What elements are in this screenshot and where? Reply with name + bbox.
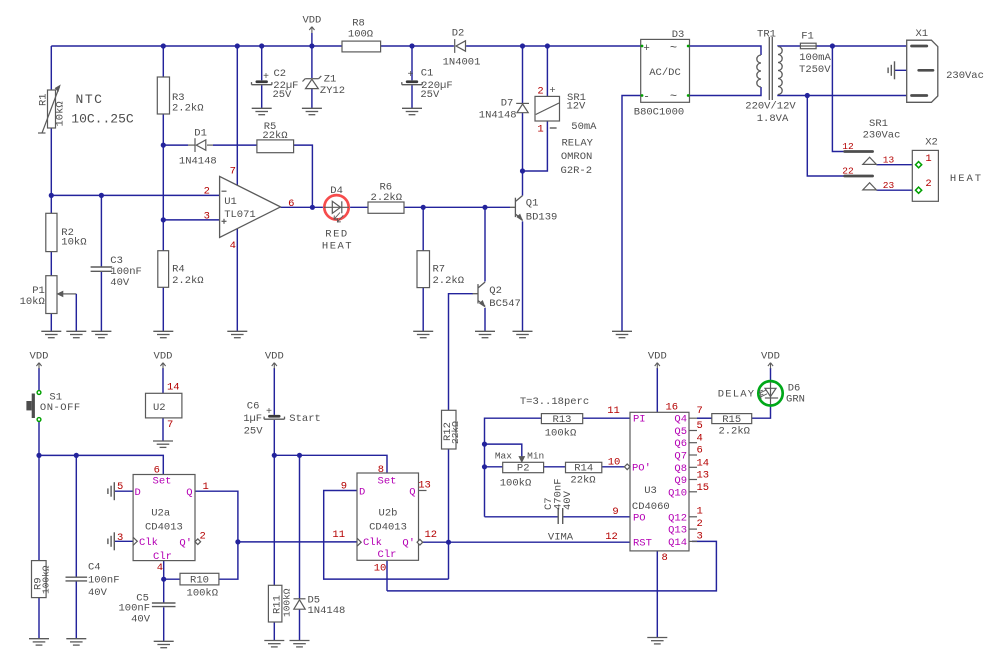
- svg-text:GRN: GRN: [786, 394, 805, 406]
- svg-text:G2R-2: G2R-2: [561, 165, 593, 177]
- svg-text:12: 12: [842, 141, 854, 152]
- svg-text:RED: RED: [325, 229, 348, 241]
- svg-text:2.2kΩ: 2.2kΩ: [433, 275, 465, 287]
- svg-text:CD4060: CD4060: [632, 501, 670, 513]
- svg-text:10kΩ: 10kΩ: [61, 237, 86, 249]
- svg-text:Clk: Clk: [363, 537, 382, 549]
- svg-text:Start: Start: [289, 413, 321, 425]
- svg-text:2.2kΩ: 2.2kΩ: [718, 425, 750, 437]
- svg-text:P2: P2: [517, 463, 530, 475]
- svg-text:12V: 12V: [566, 100, 586, 112]
- svg-text:100kΩ: 100kΩ: [500, 477, 532, 489]
- svg-text:R7: R7: [433, 264, 446, 276]
- svg-text:R14: R14: [574, 463, 593, 475]
- svg-text:2.2kΩ: 2.2kΩ: [172, 103, 204, 115]
- svg-text:100mA: 100mA: [799, 52, 831, 64]
- svg-text:Q4: Q4: [674, 414, 687, 426]
- svg-text:Set: Set: [153, 475, 172, 487]
- svg-text:100kΩ: 100kΩ: [545, 427, 577, 439]
- svg-text:AC/DC: AC/DC: [649, 67, 681, 79]
- svg-text:R1: R1: [38, 93, 50, 106]
- svg-text:40V: 40V: [110, 277, 130, 289]
- svg-text:2: 2: [537, 86, 543, 98]
- svg-text:Clr: Clr: [153, 551, 172, 563]
- svg-text:16: 16: [666, 402, 679, 414]
- svg-text:3: 3: [117, 532, 123, 544]
- svg-text:5: 5: [697, 420, 703, 432]
- svg-text:25V: 25V: [420, 89, 440, 101]
- svg-text:100Ω: 100Ω: [348, 29, 373, 41]
- svg-text:25V: 25V: [272, 89, 292, 101]
- svg-text:OMRON: OMRON: [561, 151, 593, 163]
- svg-text:RST: RST: [633, 537, 652, 549]
- svg-text:NTC: NTC: [76, 92, 104, 107]
- svg-text:+: +: [643, 43, 650, 55]
- svg-text:Q: Q: [409, 487, 415, 499]
- svg-text:+: +: [266, 407, 272, 418]
- svg-text:13: 13: [883, 155, 895, 166]
- svg-text:ZY12: ZY12: [320, 85, 345, 97]
- svg-text:D1: D1: [194, 127, 207, 139]
- svg-text:9: 9: [612, 506, 618, 518]
- svg-text:VDD: VDD: [154, 351, 173, 363]
- svg-text:R10: R10: [190, 574, 209, 586]
- svg-text:X1: X1: [915, 28, 928, 40]
- svg-text:+: +: [407, 70, 413, 81]
- svg-text:9: 9: [341, 481, 347, 493]
- svg-text:Q5: Q5: [674, 426, 687, 438]
- svg-text:TL071: TL071: [224, 209, 256, 221]
- svg-text:RELAY: RELAY: [561, 137, 593, 149]
- svg-text:100kΩ: 100kΩ: [187, 588, 219, 600]
- svg-text:1: 1: [537, 124, 543, 136]
- svg-text:11: 11: [332, 529, 345, 541]
- svg-text:7: 7: [697, 405, 703, 417]
- svg-text:25V: 25V: [244, 426, 264, 438]
- svg-text:Q': Q': [179, 538, 192, 550]
- svg-text:1µF: 1µF: [243, 413, 262, 425]
- svg-text:Q1: Q1: [526, 198, 539, 210]
- svg-text:HEAT: HEAT: [322, 240, 353, 252]
- svg-text:14: 14: [697, 458, 710, 470]
- svg-text:Q7: Q7: [674, 451, 687, 463]
- svg-text:SR1: SR1: [869, 118, 888, 130]
- svg-text:T250V: T250V: [799, 64, 831, 76]
- svg-text:VDD: VDD: [30, 351, 49, 363]
- svg-text:VDD: VDD: [648, 351, 667, 363]
- svg-text:Q13: Q13: [668, 525, 687, 537]
- svg-text:10kΩ: 10kΩ: [20, 296, 45, 308]
- svg-text:ON-OFF: ON-OFF: [40, 402, 81, 414]
- svg-text:220V/12V: 220V/12V: [745, 101, 796, 113]
- svg-text:3: 3: [697, 531, 703, 543]
- svg-text:VDD: VDD: [302, 15, 321, 27]
- svg-text:DELAY: DELAY: [718, 389, 756, 401]
- svg-text:22kΩ: 22kΩ: [450, 421, 461, 444]
- svg-text:10kΩ: 10kΩ: [54, 101, 66, 126]
- svg-text:7: 7: [230, 166, 236, 178]
- svg-text:13: 13: [418, 480, 431, 492]
- svg-text:2.2kΩ: 2.2kΩ: [172, 275, 204, 287]
- svg-text:D: D: [135, 487, 141, 499]
- svg-text:22kΩ: 22kΩ: [570, 474, 595, 486]
- svg-text:BC547: BC547: [489, 298, 521, 310]
- svg-text:C2: C2: [273, 68, 286, 80]
- svg-text:3: 3: [204, 211, 210, 223]
- svg-text:U1: U1: [224, 196, 237, 208]
- svg-text:Q: Q: [186, 487, 192, 499]
- svg-text:100nF: 100nF: [88, 575, 120, 587]
- svg-text:C6: C6: [247, 400, 260, 412]
- svg-text:22: 22: [842, 166, 854, 177]
- svg-text:7: 7: [167, 419, 173, 431]
- svg-text:8: 8: [378, 464, 384, 476]
- svg-text:230Vac: 230Vac: [946, 70, 984, 82]
- svg-text:11: 11: [607, 405, 620, 417]
- svg-text:VDD: VDD: [265, 351, 284, 363]
- svg-text:4: 4: [157, 562, 163, 574]
- svg-text:100kΩ: 100kΩ: [40, 565, 51, 594]
- svg-text:~: ~: [670, 41, 677, 55]
- svg-text:R4: R4: [172, 263, 185, 275]
- svg-text:Q10: Q10: [668, 487, 687, 499]
- svg-text:1N4148: 1N4148: [308, 605, 346, 617]
- svg-text:2.2kΩ: 2.2kΩ: [371, 192, 403, 204]
- svg-text:U3: U3: [644, 485, 657, 497]
- svg-text:2: 2: [200, 531, 206, 543]
- svg-text:R15: R15: [722, 414, 741, 426]
- svg-text:8: 8: [662, 552, 668, 564]
- svg-text:U2: U2: [153, 402, 166, 414]
- svg-text:13: 13: [697, 470, 710, 482]
- svg-text:10: 10: [374, 563, 387, 575]
- svg-text:D7: D7: [501, 97, 514, 109]
- svg-text:Q8: Q8: [674, 463, 687, 475]
- svg-text:40V: 40V: [88, 587, 108, 599]
- svg-text:1.8VA: 1.8VA: [757, 113, 789, 125]
- svg-text:VDD: VDD: [761, 351, 780, 363]
- svg-text:-: -: [643, 92, 650, 104]
- svg-text:40V: 40V: [562, 490, 574, 510]
- svg-text:22kΩ: 22kΩ: [262, 130, 287, 142]
- svg-text:1: 1: [925, 153, 931, 165]
- svg-text:Q2: Q2: [489, 285, 502, 297]
- svg-text:Q6: Q6: [674, 438, 687, 450]
- svg-text:1: 1: [697, 506, 703, 518]
- svg-text:Max: Max: [495, 451, 512, 462]
- svg-text:12: 12: [424, 529, 437, 541]
- svg-text:F1: F1: [801, 31, 814, 43]
- svg-text:VIMA: VIMA: [548, 532, 574, 544]
- svg-text:U2b: U2b: [379, 507, 398, 519]
- svg-text:Q9: Q9: [674, 475, 687, 487]
- svg-text:+: +: [263, 72, 269, 83]
- svg-text:100kΩ: 100kΩ: [282, 588, 293, 617]
- svg-text:Z1: Z1: [324, 73, 337, 85]
- svg-text:Q12: Q12: [668, 512, 687, 524]
- svg-text:HEAT: HEAT: [950, 173, 983, 185]
- svg-text:230Vac: 230Vac: [863, 130, 901, 142]
- svg-text:Clk: Clk: [139, 537, 158, 549]
- svg-text:1N4148: 1N4148: [479, 109, 517, 121]
- svg-text:BD139: BD139: [526, 212, 558, 224]
- svg-text:CD4013: CD4013: [369, 522, 407, 534]
- svg-text:D3: D3: [672, 29, 685, 41]
- svg-text:Set: Set: [378, 475, 397, 487]
- svg-text:6: 6: [154, 464, 160, 476]
- svg-text:U2a: U2a: [151, 507, 170, 519]
- svg-text:PO: PO: [633, 512, 646, 524]
- svg-text:6: 6: [288, 198, 294, 210]
- svg-text:D2: D2: [452, 28, 465, 40]
- svg-text:X2: X2: [925, 137, 938, 149]
- svg-text:D4: D4: [330, 185, 343, 197]
- svg-text:1: 1: [203, 481, 209, 493]
- svg-text:~: ~: [670, 90, 677, 104]
- svg-text:10C..25C: 10C..25C: [71, 111, 134, 126]
- svg-text:T=3..18perc: T=3..18perc: [520, 396, 589, 408]
- svg-text:B80C1000: B80C1000: [634, 107, 684, 119]
- svg-text:Min: Min: [527, 451, 544, 462]
- svg-text:4: 4: [697, 433, 703, 445]
- svg-text:TR1: TR1: [757, 29, 776, 41]
- svg-text:4: 4: [230, 240, 236, 252]
- svg-text:15: 15: [697, 482, 710, 494]
- svg-text:+: +: [549, 85, 555, 97]
- svg-text:C4: C4: [88, 562, 101, 574]
- svg-text:2: 2: [204, 186, 210, 198]
- svg-text:6: 6: [697, 445, 703, 457]
- svg-text:2: 2: [697, 518, 703, 530]
- svg-text:10: 10: [608, 457, 621, 469]
- svg-text:Q14: Q14: [668, 537, 687, 549]
- svg-text:C1: C1: [421, 68, 434, 80]
- svg-text:2: 2: [925, 178, 931, 190]
- svg-text:PI: PI: [633, 414, 646, 426]
- svg-text:1N4001: 1N4001: [443, 57, 481, 69]
- svg-text:D: D: [359, 487, 365, 499]
- svg-text:R13: R13: [553, 414, 572, 426]
- svg-text:5: 5: [117, 481, 123, 493]
- svg-text:23: 23: [883, 180, 895, 191]
- svg-text:Clr: Clr: [378, 549, 397, 561]
- svg-text:12: 12: [605, 531, 618, 543]
- svg-text:Q': Q': [402, 538, 415, 550]
- svg-text:1N4148: 1N4148: [179, 155, 217, 167]
- svg-text:50mA: 50mA: [571, 121, 597, 133]
- svg-text:PO': PO': [632, 462, 651, 474]
- svg-text:14: 14: [167, 382, 180, 394]
- svg-text:40V: 40V: [131, 614, 151, 626]
- svg-text:CD4013: CD4013: [145, 522, 183, 534]
